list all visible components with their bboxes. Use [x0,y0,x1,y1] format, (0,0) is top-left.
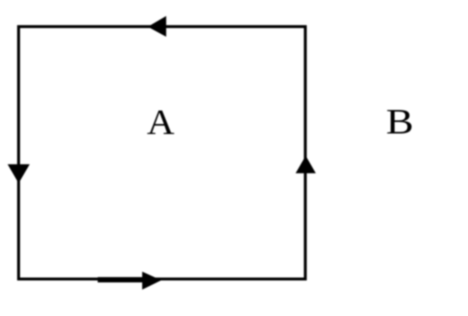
loop square (region A boundary) [19,27,306,279]
svg-text:B: B [386,102,414,142]
arrow top edge (pointing left) [148,16,166,37]
svg-text:A: A [147,103,175,143]
arrow left edge (pointing down) [8,164,30,183]
arrow bottom edge tail [98,277,143,282]
arrow right edge (pointing up) [296,156,316,174]
arrow bottom edge (pointing right) [142,272,161,290]
